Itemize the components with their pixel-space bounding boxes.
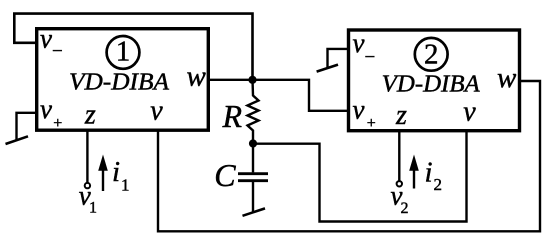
svg-text:1: 1: [89, 200, 97, 217]
svg-text:v: v: [150, 96, 163, 127]
wire: feedback from node w1 to v- input of U1: [14, 14, 252, 80]
U1 circle label 1: [107, 36, 140, 69]
node v2 open terminal: [397, 181, 402, 186]
op-amp U2 (VD-DIBA 2) box: [349, 30, 520, 131]
svg-text:i: i: [112, 156, 120, 188]
svg-text:R: R: [222, 98, 243, 134]
svg-text:v: v: [40, 94, 52, 124]
junction node A (between R and C): [249, 139, 257, 147]
svg-text:+: +: [367, 115, 376, 132]
U2 circle label 2: [415, 38, 448, 71]
svg-text:z: z: [84, 100, 96, 131]
current arrow i1: [102, 168, 104, 191]
svg-text:1: 1: [116, 36, 131, 68]
wire: grounded stub at v- input of U2: [328, 49, 349, 68]
wire: node w1 to v+ input of U2: [253, 80, 349, 111]
junction node w1: [248, 76, 256, 84]
svg-text:C: C: [214, 157, 236, 193]
svg-text:2: 2: [401, 200, 409, 217]
svg-text:+: +: [53, 115, 62, 132]
wire: grounded stub at v+ input of U1: [17, 113, 37, 140]
svg-text:−: −: [365, 47, 376, 68]
svg-text:z: z: [395, 100, 407, 131]
resistor R: [248, 80, 259, 144]
svg-text:v: v: [353, 28, 365, 58]
node v1 open terminal: [85, 183, 90, 188]
svg-text:i: i: [425, 157, 433, 189]
svg-text:2: 2: [424, 39, 439, 71]
wire: z terminal of U2 down to node v2: [398, 131, 400, 181]
svg-text:2: 2: [434, 175, 443, 194]
svg-text:1: 1: [121, 176, 130, 195]
svg-text:v: v: [463, 97, 476, 128]
wire: node A to v output of U2: [253, 131, 467, 222]
op-amp U1 (VD-DIBA 1) box: [37, 29, 209, 131]
svg-text:v: v: [353, 95, 365, 125]
wire: z terminal of U1 down to node v1: [86, 131, 88, 183]
svg-text:VD-DIBA: VD-DIBA: [382, 71, 480, 97]
ground slash below C: [243, 208, 266, 215]
svg-text:v: v: [40, 24, 52, 54]
wire: w output of U1 to node w1: [208, 79, 253, 81]
capacitor C: [252, 144, 254, 173]
svg-text:VD-DIBA: VD-DIBA: [69, 70, 169, 96]
svg-text:w: w: [497, 62, 517, 94]
wire: v output of U1 along bottom to w output of U2: [158, 81, 540, 231]
ground slash at v- of U2: [317, 65, 338, 72]
ground slash at v+ of U1: [6, 136, 29, 144]
current arrow i2: [413, 167, 415, 189]
svg-text:w: w: [187, 61, 207, 93]
svg-text:−: −: [52, 41, 63, 62]
